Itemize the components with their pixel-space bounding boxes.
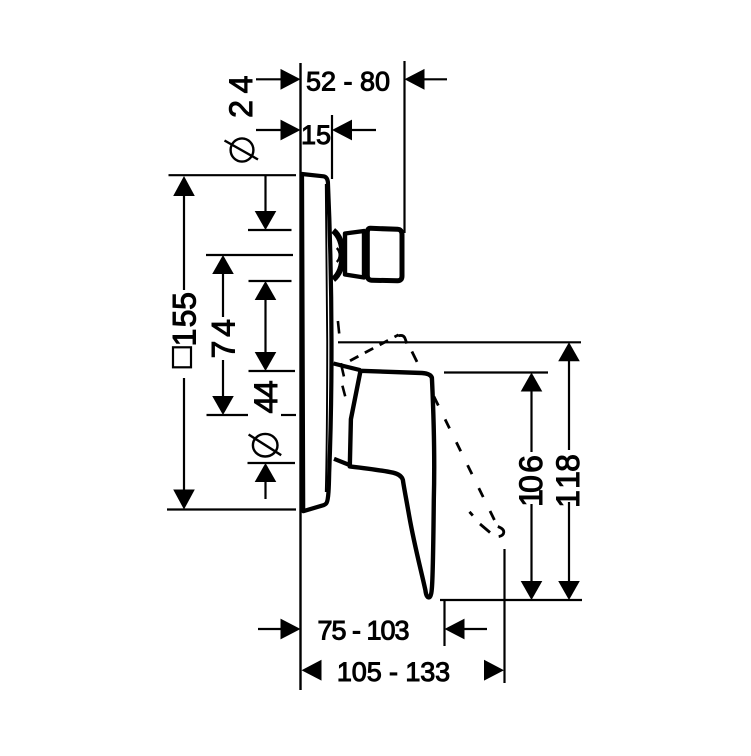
- svg-text:75 - 103: 75 - 103: [317, 616, 408, 646]
- escutcheon plate outline: [302, 174, 332, 511]
- label 106 rotated: [513, 455, 549, 507]
- dimension Ø24 leader and arrows: [255, 176, 277, 371]
- label Ø 24 rotated: [223, 76, 259, 162]
- svg-text:0: 0: [513, 475, 549, 493]
- dimension 75-103 left arrow: [258, 619, 301, 640]
- dashed lever left edge dash 3: [342, 386, 345, 397]
- label Ø 44 rotated: [248, 380, 284, 456]
- dashed lever raised position top edge: [348, 335, 399, 362]
- svg-text:52 - 80: 52 - 80: [306, 67, 390, 97]
- extension line 74 bottom: [207, 414, 249, 416]
- dashed lever left edge dash 1: [338, 321, 339, 334]
- svg-text:15: 15: [301, 120, 331, 150]
- extension line dashed lever top (118 ref): [338, 341, 581, 343]
- svg-text:2: 2: [223, 100, 259, 118]
- dimension square155 vertical: [173, 176, 195, 510]
- dashed lever tip inner dash a: [470, 512, 473, 516]
- dashed lever tip hook: [498, 527, 504, 537]
- dashed lever tip inner dash b: [480, 524, 490, 533]
- handle boss bottom edge: [334, 459, 350, 465]
- dimension 15 right arrow: [332, 120, 376, 141]
- extension line stub top: [248, 229, 292, 231]
- svg-text:4: 4: [248, 380, 284, 398]
- svg-text:5: 5: [167, 310, 203, 328]
- extension line plate bottom: [167, 508, 296, 510]
- extension line 75-103 right reference: [443, 600, 445, 646]
- extension line stub bottom: [249, 280, 292, 282]
- label 118 rotated: [550, 454, 586, 508]
- extension line right of stub (52-80 right reference): [403, 61, 405, 233]
- svg-text:1: 1: [550, 490, 586, 508]
- cartridge bulge at plate: [333, 231, 342, 280]
- dimension 52-80 line left arrow: [256, 69, 301, 90]
- dimension 52-80 right arrow: [405, 69, 448, 90]
- svg-text:5: 5: [167, 292, 203, 310]
- svg-text:105 - 133: 105 - 133: [337, 657, 450, 687]
- svg-text:1: 1: [550, 471, 586, 489]
- svg-text:4: 4: [223, 76, 259, 94]
- extension line solid lever top (106 ref): [444, 371, 548, 373]
- extension line 44 bottom: [248, 462, 296, 464]
- dimension Ø44 lower arrow: [255, 463, 277, 499]
- label 74 rotated: [206, 319, 242, 358]
- dimension 74 vertical: [212, 255, 234, 415]
- cartridge body: [367, 228, 402, 281]
- extension line plate top: [169, 174, 297, 176]
- svg-text:8: 8: [550, 454, 586, 472]
- dashed lever long edge: [412, 352, 417, 362]
- dimension 118 vertical: [558, 342, 580, 600]
- svg-text:4: 4: [206, 319, 242, 337]
- extension line plate front (15 right reference): [331, 115, 333, 179]
- svg-text:6: 6: [513, 455, 549, 473]
- extension line lever top left: [249, 370, 296, 372]
- lever handle solid outline: [350, 371, 434, 598]
- extension line handle bottom (bottom ref): [440, 599, 582, 601]
- handle boss top edge: [334, 364, 361, 371]
- plate front inner line: [326, 184, 327, 492]
- extension line stub center: [206, 254, 293, 256]
- dimension 15 left arrow: [256, 120, 301, 141]
- cartridge collar: [345, 231, 364, 278]
- dashed lever left edge dash 2: [341, 363, 344, 376]
- cartridge bulge inner arc: [337, 248, 340, 262]
- svg-text:1: 1: [167, 329, 203, 347]
- dimension 105-133 right arrow: [484, 660, 504, 681]
- dashed lever corner: [398, 335, 407, 343]
- dimension 106 vertical: [521, 373, 543, 601]
- extension line 105-133 right reference: [503, 549, 505, 683]
- dimension 75-103 right arrow: [445, 619, 488, 640]
- svg-text:7: 7: [206, 341, 242, 359]
- wall reference line: [299, 63, 301, 690]
- label square 155 rotated: [167, 292, 203, 367]
- dimension 105-133 left arrow: [302, 660, 322, 681]
